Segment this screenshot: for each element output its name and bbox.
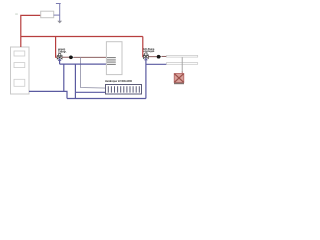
radiator HK1 [106,85,142,95]
wire: grey radiator supply drop [81,57,106,88]
wire: blue to right manifold [146,63,167,65]
wire: blue return under left valve [59,59,61,64]
wire: drop to heating circuit box [181,57,183,72]
wire: red riser from boiler top [21,15,41,47]
wire: pump to tank [74,56,107,58]
wire: blue vertical to boiler return [63,64,65,91]
pump P2 [157,55,161,59]
valve V1 (left, motorized) [57,53,62,60]
wire: valve to pump (left) [62,56,70,58]
svg-text:Ladegr.: Ladegr. [58,50,67,53]
heating circuit box (crossed) [174,74,184,85]
wire: bottom return bus [67,98,146,100]
wire: valve to pump (right) [148,56,157,58]
tank with coil [106,42,122,75]
wire: pump to manifold [162,55,167,57]
valve V2 (right, motorized) [144,53,149,60]
expansion vessel box [41,11,54,18]
wire: red drop to right valve [142,37,145,57]
safety valve assembly [54,3,62,23]
wire: boiler return [29,91,67,98]
wire: radiator bottom feed [75,91,105,93]
svg-text:engruppe: engruppe [144,50,156,53]
faint mark near corner [15,13,18,14]
wire: blue return to tank [60,63,107,65]
wire: red main supply line [21,36,143,38]
manifold rail top [167,55,198,57]
wire: blue vertical long [74,64,76,98]
manifold rail bottom [167,63,198,65]
svg-text:Heizkörper 22 600x1000: Heizkörper 22 600x1000 [105,80,133,83]
pump P1 [69,55,73,59]
wire: red drop to left valve [56,37,58,58]
wire: right valve return drop [145,59,147,99]
boiler K1 [11,47,30,94]
